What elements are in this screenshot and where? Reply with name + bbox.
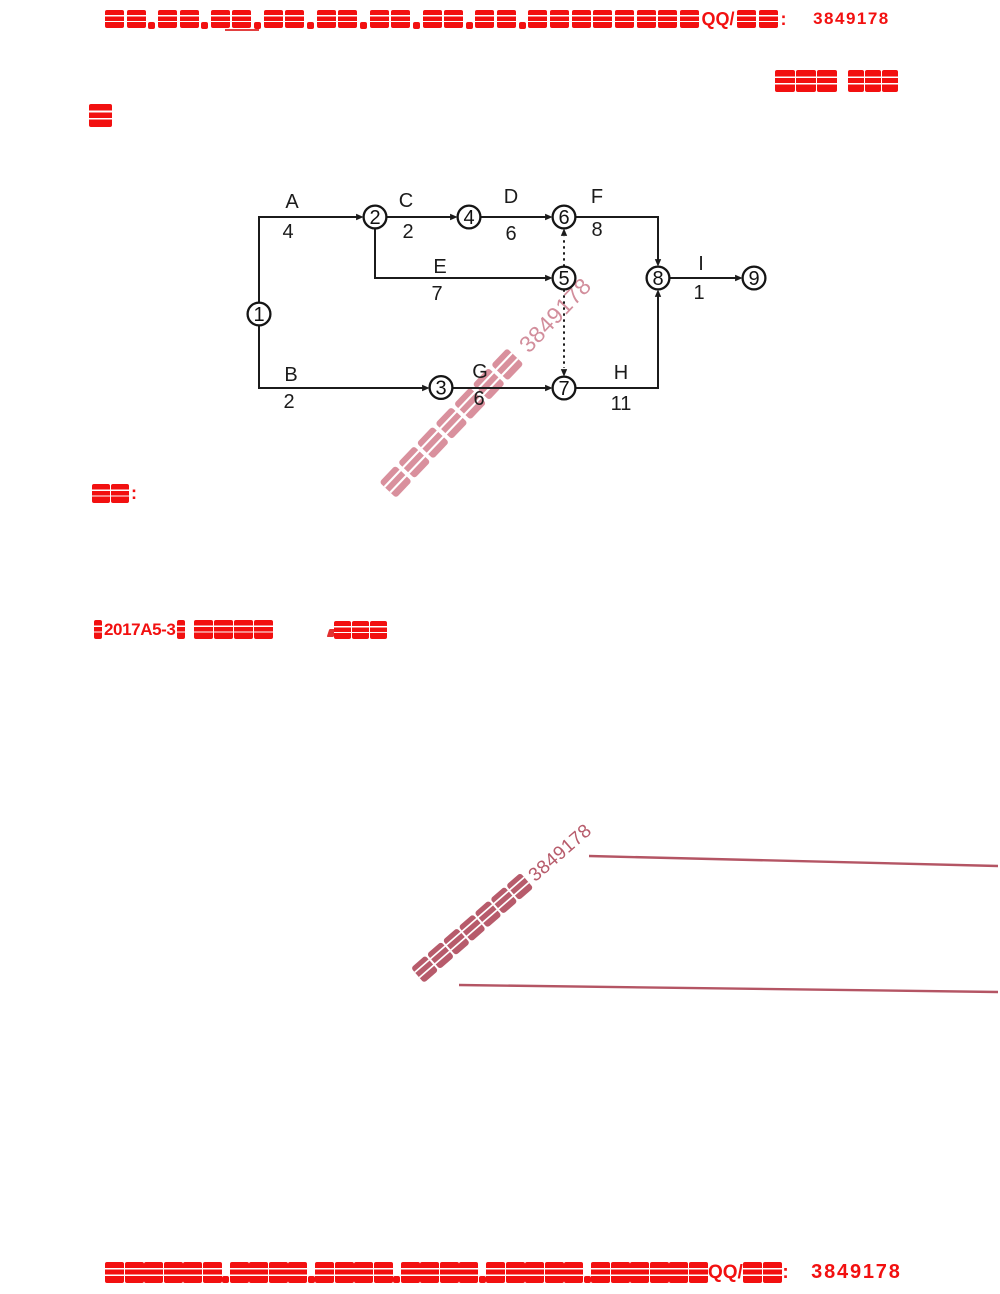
svg-text:7: 7 — [431, 283, 442, 305]
svg-text:6: 6 — [473, 388, 484, 410]
tiny red wedge — [327, 629, 337, 637]
arrowhead into node8 top — [655, 259, 661, 267]
svg-text:D: D — [504, 186, 518, 208]
node 3 — [430, 376, 453, 399]
top red ad line — [105, 10, 890, 29]
wire activity A from node1 to node2 — [259, 217, 357, 303]
arrowhead dummy into node7 top — [561, 369, 567, 377]
node 2 — [364, 206, 387, 229]
dummy arrow 5 to 6 dotted — [563, 237, 565, 267]
wire activity B from node1 to node3 — [259, 325, 423, 388]
arrowhead into node3 — [422, 385, 430, 391]
svg-text:3849178: 3849178 — [525, 820, 596, 886]
arrowhead into node6 — [545, 214, 553, 220]
arrowhead into node7 — [545, 385, 553, 391]
single red char left — [89, 104, 112, 127]
node 5 — [553, 267, 576, 290]
svg-text:H: H — [614, 362, 628, 384]
arrowhead into node8 bottom — [655, 289, 661, 297]
thin red line A right of watermark2 — [589, 856, 998, 866]
wire activity F node6 to node8 corner — [575, 217, 658, 260]
wire activity I node8-node9 — [669, 277, 736, 279]
svg-text:2: 2 — [402, 221, 413, 243]
svg-text:I: I — [698, 253, 704, 275]
arrowhead into node2 — [356, 214, 364, 220]
question ref line: [2017A5-3] guanjian gongzuo ... zongshicha — [94, 620, 273, 640]
node 6 — [553, 206, 576, 229]
svg-text:4: 4 — [282, 221, 293, 243]
svg-text:11: 11 — [611, 393, 632, 415]
thin red line B lower right of watermark2 — [459, 985, 998, 992]
wire activity C node2-node4 — [386, 216, 451, 218]
arrowhead into node5 — [545, 275, 553, 281]
svg-text:9: 9 — [748, 268, 759, 290]
svg-text:7: 7 — [558, 378, 569, 400]
bottom red ad line — [105, 1262, 902, 1283]
arrowhead dummy into node6 bottom — [561, 228, 567, 236]
svg-text:6: 6 — [505, 223, 516, 245]
svg-text:1: 1 — [253, 304, 264, 326]
node 4 — [458, 206, 481, 229]
wire activity G node3-node7 — [452, 387, 546, 389]
svg-text:B: B — [284, 364, 297, 386]
wire activity E node2 down then to node5 — [375, 228, 546, 278]
node 8 — [647, 267, 670, 290]
svg-text:5: 5 — [558, 268, 569, 290]
arrowhead into node4 — [450, 214, 458, 220]
svg-text:3: 3 — [435, 378, 446, 400]
svg-text:8: 8 — [591, 219, 602, 241]
watermark 1 diagonal over diagram — [379, 273, 597, 500]
small red underline in top line — [225, 29, 259, 31]
svg-text:2: 2 — [369, 207, 380, 229]
dummy arrow 5 to 7 dotted — [563, 289, 565, 368]
zongshicha red — [334, 621, 387, 640]
node 9 — [743, 267, 766, 290]
top right red: zong shi cha / zi you shi — [775, 70, 898, 93]
watermark 2 diagonal mid page — [411, 820, 596, 985]
svg-text:8: 8 — [652, 268, 663, 290]
svg-text:4: 4 — [463, 207, 474, 229]
red jiexi: label — [92, 484, 137, 504]
svg-text:2: 2 — [283, 391, 294, 413]
svg-text:1: 1 — [693, 282, 704, 304]
arrowhead into node9 — [735, 275, 743, 281]
svg-text:6: 6 — [558, 207, 569, 229]
svg-text:C: C — [399, 190, 413, 212]
svg-text:E: E — [433, 256, 446, 278]
diagram white box — [231, 164, 791, 439]
node 1 — [248, 303, 271, 326]
svg-text:G: G — [472, 361, 488, 383]
svg-text:F: F — [591, 186, 603, 208]
svg-text:A: A — [285, 191, 299, 213]
node 7 — [553, 377, 576, 400]
wire activity D node4-node6 — [480, 216, 546, 218]
wire activity H node7 to node8 corner — [575, 296, 658, 388]
